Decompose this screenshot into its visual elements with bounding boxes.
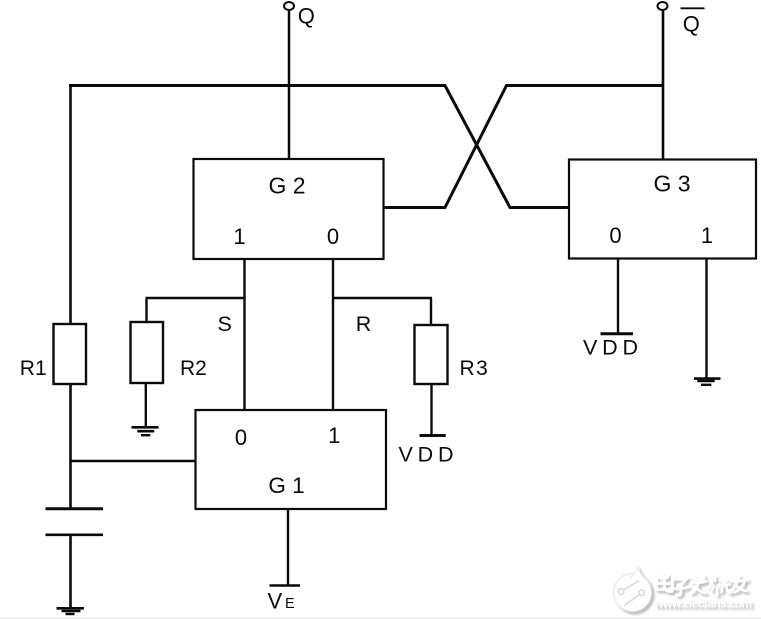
svg-text:0: 0 [609, 223, 621, 248]
svg-text:0: 0 [235, 425, 247, 450]
svg-text:VDD: VDD [583, 336, 643, 360]
svg-text:1: 1 [701, 223, 713, 248]
svg-text:R: R [356, 312, 372, 336]
svg-text:G 2: G 2 [268, 173, 305, 199]
svg-text:S: S [218, 312, 232, 336]
svg-text:Q: Q [298, 4, 315, 29]
svg-text:R3: R3 [460, 357, 490, 380]
svg-text:G 1: G 1 [268, 473, 304, 498]
svg-text:G 3: G 3 [653, 171, 690, 197]
svg-text:Q: Q [683, 12, 700, 37]
svg-text:1: 1 [233, 224, 245, 249]
svg-text:0: 0 [327, 224, 339, 249]
svg-text:1: 1 [328, 423, 340, 448]
svg-text:VDD: VDD [399, 442, 459, 466]
svg-text:E: E [285, 596, 295, 612]
svg-text:R2: R2 [180, 357, 207, 380]
svg-text:V: V [268, 589, 283, 614]
svg-text:R1: R1 [20, 357, 47, 380]
svg-text:www.elecfans.com: www.elecfans.com [654, 597, 752, 611]
